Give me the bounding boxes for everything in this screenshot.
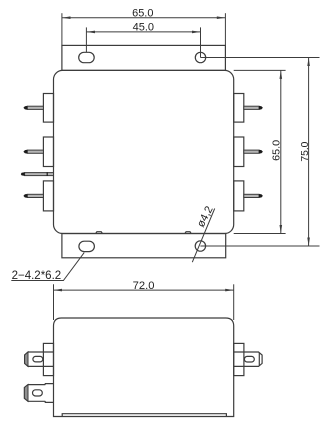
- svg-text:45.0: 45.0: [133, 21, 154, 33]
- pin right 1: [244, 106, 263, 110]
- leader hole ø4.2: [192, 209, 214, 263]
- top flange (upper mounting flange, top view): [62, 45, 226, 70]
- insulator block upper-left: [43, 343, 53, 375]
- svg-text:72.0: 72.0: [133, 280, 155, 292]
- dim line 65.0 top: [62, 17, 225, 19]
- extension line through bottom-right hole center: [200, 245, 319, 247]
- pin left 3: [23, 194, 43, 198]
- terminal block right 1: [234, 94, 244, 123]
- pin right 2: [244, 150, 263, 154]
- faston blade lower-left: [24, 385, 45, 402]
- faston blade right: [234, 352, 262, 366]
- extension of body bottom edge: [234, 233, 286, 235]
- long ground pin left: [21, 172, 54, 176]
- svg-text:ø4,2: ø4,2: [195, 204, 216, 229]
- side view body: [54, 318, 234, 417]
- blade end fold right: [258, 353, 260, 366]
- terminal block left 3: [43, 181, 53, 211]
- dim 45.0 extension left: [85, 27, 87, 52]
- body outline (top view, 72x65 case): [54, 70, 234, 233]
- dim 65.0 extension left: [61, 13, 63, 45]
- dim 72.0 extension right: [233, 284, 235, 320]
- terminal block right 2: [234, 137, 244, 167]
- dim line 65.0 vertical: [280, 70, 282, 233]
- rivet bump left on body bottom edge: [96, 232, 103, 234]
- mounting hole bottom-right ø4.2: [195, 241, 205, 251]
- mounting plate lower-left: [45, 384, 53, 403]
- rivet bump right on body bottom edge: [185, 232, 191, 234]
- terminal block left 2: [43, 137, 53, 167]
- insulator block right: [234, 343, 244, 375]
- dimension group: [11, 13, 319, 320]
- leader slot 2-4.2*6.2: [11, 253, 84, 281]
- svg-text:75.0: 75.0: [300, 141, 311, 161]
- pin right 3: [244, 194, 263, 198]
- blade thickness face lower-left: [24, 385, 28, 402]
- dim line 75.0 vertical: [308, 58, 310, 247]
- blade hole lower-left: [33, 390, 43, 396]
- svg-text:2−4.2*6.2: 2−4.2*6.2: [12, 270, 62, 282]
- blade hole upper-left: [33, 356, 43, 362]
- base plate lip: [62, 414, 226, 417]
- mounting hole top-right ø4.2: [195, 52, 205, 62]
- dim 45.0 extension right / centerline to hole: [200, 27, 202, 57]
- svg-text:65.0: 65.0: [272, 139, 283, 160]
- mounting slot top-left 4.2x6.2: [79, 52, 95, 62]
- dim line 72.0: [54, 289, 234, 291]
- pin left 2: [23, 150, 43, 154]
- mounting slot bottom-left 4.2x6.2: [79, 241, 95, 251]
- dim line 45.0: [87, 31, 201, 33]
- blade hole right: [244, 356, 254, 362]
- extension line through top-right hole center: [201, 57, 320, 59]
- pin left 1: [23, 106, 43, 110]
- dim 72.0 extension left: [53, 284, 55, 320]
- dim 65.0 extension right: [224, 13, 226, 45]
- svg-text:65.0: 65.0: [132, 7, 153, 19]
- bottom flange (lower mounting flange, top view): [62, 234, 226, 258]
- extension of body top edge: [234, 69, 286, 71]
- terminal block right 3: [234, 181, 244, 211]
- terminal block left 1: [43, 94, 53, 123]
- blade thickness face upper-left: [25, 352, 28, 366]
- faston blade upper-left: [25, 352, 54, 366]
